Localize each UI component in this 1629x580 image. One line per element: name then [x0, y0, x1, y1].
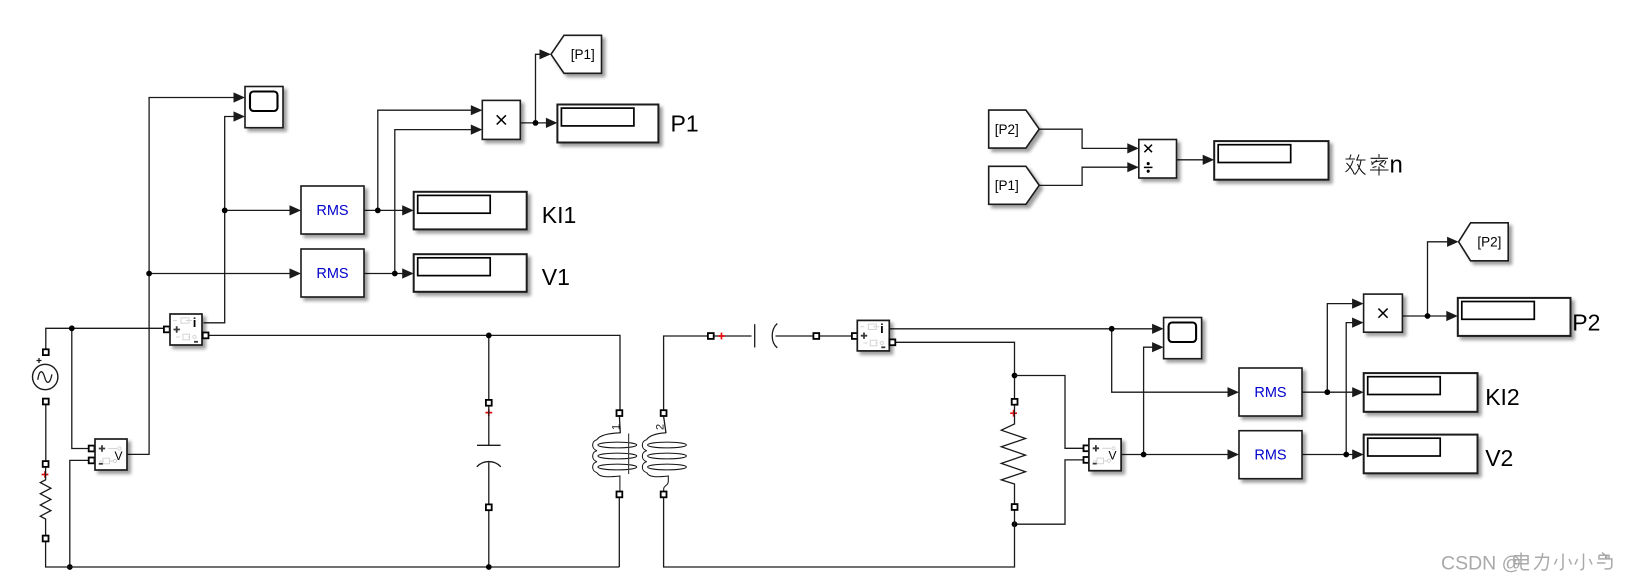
wire C2 right segment to i2 plus — [776, 335, 814, 337]
voltage measurement V2 — [1084, 445, 1090, 451]
display P2 — [1458, 298, 1571, 336]
wire branch to RMS1 input — [225, 209, 291, 211]
wire AC source to node A / i1 plus input — [46, 328, 164, 349]
junction at V1/RMS2 branch — [146, 271, 152, 277]
junction RMS3 output — [1324, 389, 1330, 395]
scope Scope2 — [1164, 318, 1202, 359]
display P1 — [557, 105, 658, 143]
RMS block 1 current — [301, 186, 364, 234]
display efficiency — [1214, 141, 1328, 180]
junction C1 top — [486, 333, 492, 339]
RMS block 4 voltage secondary — [1239, 431, 1302, 479]
wire Product2 output to Display P2 — [1402, 315, 1447, 317]
wire capacitor C1 bottom to rail — [488, 511, 490, 568]
svg-text:V: V — [1109, 449, 1117, 463]
junction C1 bottom — [486, 564, 492, 570]
svg-text:[P2]: [P2] — [1477, 235, 1501, 250]
wire V1 output to Scope1 input 1 — [127, 98, 235, 455]
svg-text:[P1]: [P1] — [995, 178, 1019, 193]
wire Product1 output to Display P1 — [520, 122, 547, 124]
current measurement i2 — [852, 333, 858, 339]
wire i2 output to Scope2 input 1 — [889, 328, 1153, 330]
svg-text:i: i — [880, 321, 884, 336]
wire branch to Goto tag P1 — [536, 54, 541, 123]
wire transformer winding 2 top to capacitor C2 — [664, 336, 708, 410]
svg-text:V1: V1 — [542, 264, 570, 290]
capacitor C2 secondary series compensation — [708, 333, 714, 339]
junction at i1/RMS1 branch — [222, 208, 228, 214]
current measurement i1 — [164, 327, 170, 333]
svg-text:RMS: RMS — [316, 266, 348, 282]
wire primary top rail i1 to transformer winding 1 — [209, 335, 620, 409]
product block Product2 — [1364, 294, 1403, 332]
scope Scope1 — [245, 87, 283, 128]
wire RMS1 output to Display KI1 — [364, 209, 403, 211]
resistor R2 load — [1012, 399, 1018, 405]
wire RMS4 output to Display V2 — [1302, 454, 1353, 456]
from tag P2 — [989, 110, 1039, 148]
wire branch RMS4 to Product2 input 2 — [1346, 323, 1353, 455]
svg-text:RMS: RMS — [1254, 385, 1286, 401]
junction RMS1 output — [375, 208, 381, 214]
wire From P1 to Divide input 2 — [1039, 167, 1128, 185]
wire RMS3 output to Display KI2 — [1302, 391, 1353, 393]
svg-text:V: V — [115, 449, 123, 463]
wire From P2 to Divide input 1 — [1039, 129, 1128, 148]
wire AC source minus to resistor R1 — [45, 405, 47, 461]
junction load bottom — [1012, 521, 1018, 527]
display V2 — [1364, 435, 1478, 474]
label efficiency n — [1346, 155, 1366, 175]
wire branch RMS3 to Product2 input 1 — [1327, 304, 1353, 393]
svg-text:KI2: KI2 — [1485, 384, 1520, 410]
voltage measurement V1 — [89, 446, 95, 452]
RMS block 2 voltage — [301, 249, 364, 297]
svg-text:KI1: KI1 — [542, 202, 577, 228]
junction V2 output branch — [1141, 452, 1147, 458]
wire resistor R1 to bottom rail — [46, 542, 620, 567]
resistor R1 source resistance — [43, 461, 49, 467]
svg-text:V2: V2 — [1485, 445, 1513, 471]
wire node A down to V1 plus input — [72, 328, 89, 448]
svg-text:P1: P1 — [671, 111, 699, 137]
wire V1 minus input to bottom rail — [70, 460, 89, 567]
product block Product1 — [482, 100, 520, 139]
capacitor C1 primary compensation — [486, 400, 492, 406]
svg-text:i: i — [193, 315, 197, 330]
wire i1 output to Scope1 input 2 — [204, 117, 235, 323]
junction Product2 output — [1425, 313, 1431, 319]
transformer mutual inductance winding 2 — [661, 410, 667, 416]
wire RMS2 output to Display V1 — [364, 273, 403, 275]
junction RMS4 output — [1343, 452, 1349, 458]
wire branch to RMS2 input — [149, 273, 290, 275]
wire branch to Scope2 input 2 — [1144, 347, 1154, 454]
goto tag P2 — [1459, 223, 1509, 261]
wire transformer winding 1 bottom to rail — [618, 498, 620, 568]
wire capacitor C1 top branch — [488, 335, 490, 399]
junction Product1 output — [533, 120, 539, 126]
svg-text:RMS: RMS — [1254, 448, 1286, 464]
display V1 — [414, 254, 527, 292]
wire C2 left segment — [714, 335, 752, 337]
svg-text:CSDN @: CSDN @ — [1441, 553, 1521, 575]
junction i2 output branch — [1109, 326, 1115, 332]
display KI2 — [1364, 373, 1478, 412]
junction bottom rail at V1 minus — [67, 564, 73, 570]
transformer mutual inductance winding 1 — [617, 410, 623, 416]
from tag P1 — [989, 166, 1039, 204]
wire load resistor to secondary bottom rail — [664, 498, 1015, 568]
wire V2 output to RMS4 input — [1121, 454, 1228, 456]
AC voltage source V — [43, 349, 49, 355]
display KI1 — [414, 192, 527, 230]
svg-text:[P1]: [P1] — [571, 47, 595, 62]
junction load top — [1012, 373, 1018, 379]
wire load top branch to V2 plus — [1015, 376, 1084, 449]
junction node A — [69, 325, 75, 331]
RMS block 3 current secondary — [1239, 368, 1302, 416]
wire branch to Goto tag P2 — [1428, 242, 1449, 316]
junction RMS2 output — [392, 271, 398, 277]
svg-text:[P2]: [P2] — [995, 122, 1019, 137]
wire branch RMS2 to Product1 input 2 — [395, 130, 472, 274]
svg-text:n: n — [1390, 152, 1403, 179]
wire Divide output to Display eff — [1177, 159, 1204, 161]
goto tag P1 — [551, 35, 602, 73]
svg-text:P2: P2 — [1572, 309, 1600, 335]
divide block efficiency — [1139, 140, 1177, 179]
wire load bottom branch to V2 minus — [1015, 460, 1084, 524]
wire branch RMS1 to Product1 input 1 — [378, 110, 472, 210]
wire branch to RMS3 input — [1112, 329, 1229, 392]
svg-text:RMS: RMS — [316, 203, 348, 219]
wire i2 minus to load resistor R2 — [896, 342, 1015, 398]
